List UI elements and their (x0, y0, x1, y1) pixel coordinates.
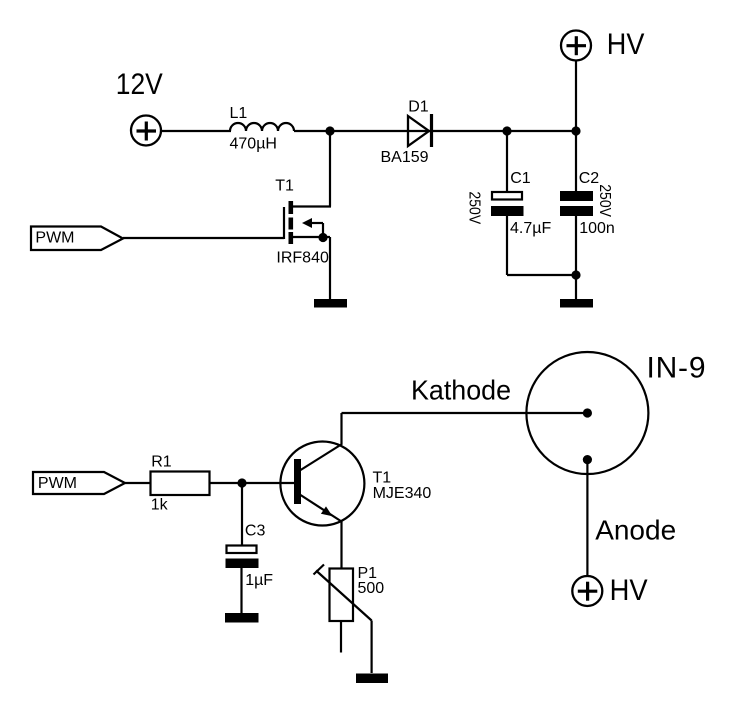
svg-text:500: 500 (358, 580, 385, 597)
L1 value label (230, 105, 277, 152)
C2 labels (579, 170, 615, 237)
svg-text:HV: HV (610, 574, 648, 607)
diode D1 (408, 114, 432, 147)
C3 labels (245, 522, 273, 588)
Anode label (595, 514, 676, 545)
svg-text:250V: 250V (596, 184, 613, 217)
svg-text:100n: 100n (579, 220, 615, 237)
wire source to ground (329, 237, 331, 299)
R1 labels (151, 453, 172, 513)
svg-text:IRF840: IRF840 (276, 250, 329, 267)
node junction drain/L1 (325, 126, 334, 135)
svg-text:L1: L1 (230, 105, 248, 122)
svg-text:C3: C3 (245, 522, 266, 539)
wire C1 node to C2 node (507, 130, 576, 132)
ground MOSFET source (314, 299, 347, 308)
svg-text:470µH: 470µH (230, 135, 277, 152)
wire L1 to node (294, 130, 330, 132)
svg-text:PWM: PWM (38, 475, 77, 492)
ground P1 wiper (356, 674, 388, 684)
svg-text:1k: 1k (151, 497, 169, 514)
svg-text:12V: 12V (116, 68, 163, 101)
wire node to C1 top (506, 131, 508, 191)
voltage source 12V (131, 116, 161, 146)
ground C3 (225, 613, 259, 623)
node junction C1 (502, 126, 511, 135)
12V label (116, 68, 163, 101)
svg-text:D1: D1 (408, 99, 429, 116)
ground capacitors (560, 299, 593, 308)
wire collector up to kathode line (340, 413, 342, 445)
svg-text:IN-9: IN-9 (647, 352, 706, 385)
transistor T1 MJE340 (280, 442, 364, 526)
C1 labels (465, 170, 551, 237)
nixie tube IN-9 (526, 352, 648, 474)
node junction source/body (318, 233, 327, 242)
svg-text:T1: T1 (275, 178, 294, 195)
wire C2 bottom to ground node (575, 216, 577, 299)
T1 MJE340 labels (373, 470, 432, 502)
wire C2 node up to HV (575, 61, 577, 131)
capacitor C1 polarized (491, 192, 524, 216)
potentiometer P1 (314, 565, 372, 653)
HV label bottom (610, 574, 648, 607)
wire node down to drain (293, 131, 331, 207)
wire emitter down to P1 (340, 521, 342, 569)
wire kathode (342, 412, 588, 414)
D1 labels (381, 99, 429, 166)
Kathode label (411, 375, 511, 406)
svg-text:4.7µF: 4.7µF (510, 220, 551, 237)
IRF840 label (276, 250, 329, 267)
node junction ground (571, 270, 580, 279)
svg-text:BA159: BA159 (381, 149, 429, 166)
svg-text:Anode: Anode (595, 514, 676, 545)
wire 12V to L1 (161, 130, 231, 132)
svg-text:Kathode: Kathode (411, 375, 511, 406)
wire anode down to HV (586, 460, 588, 576)
wire C1 bottom down (506, 216, 508, 275)
IN-9 label (647, 352, 706, 385)
wire wiper to ground (371, 621, 373, 674)
wire PWM to gate (123, 237, 284, 239)
node junction C2 (571, 126, 580, 135)
wire C2 node to C2 top (575, 131, 577, 191)
svg-text:R1: R1 (151, 453, 172, 470)
svg-text:C1: C1 (510, 170, 531, 187)
inductor L1 (230, 123, 294, 131)
wire node down to C3 (241, 483, 243, 545)
wire R1 to base (210, 482, 295, 484)
wire node to D1 (330, 130, 430, 132)
P1 labels (358, 565, 385, 597)
wire C3 to ground (240, 568, 242, 613)
resistor R1 (151, 472, 210, 496)
voltage source HV bottom (572, 576, 602, 606)
wire C1 bottom to ground node (507, 274, 576, 276)
svg-text:HV: HV (607, 28, 645, 61)
capacitor C3 (226, 546, 259, 569)
T1 label (275, 178, 294, 195)
node junction base/C3 (237, 478, 246, 487)
capacitor C2 (560, 191, 593, 216)
PWM input tag top (31, 227, 123, 251)
wire D1 to C1 node (433, 130, 507, 132)
svg-text:1µF: 1µF (245, 572, 273, 589)
transistor T1 IRF840 MOSFET (284, 201, 330, 244)
PWM input tag bottom (33, 472, 125, 494)
svg-text:250V: 250V (465, 191, 482, 224)
HV label top (607, 28, 645, 61)
svg-text:MJE340: MJE340 (373, 485, 432, 502)
svg-text:PWM: PWM (35, 229, 74, 246)
wire PWM to R1 (125, 482, 150, 484)
voltage source HV top (561, 31, 591, 61)
